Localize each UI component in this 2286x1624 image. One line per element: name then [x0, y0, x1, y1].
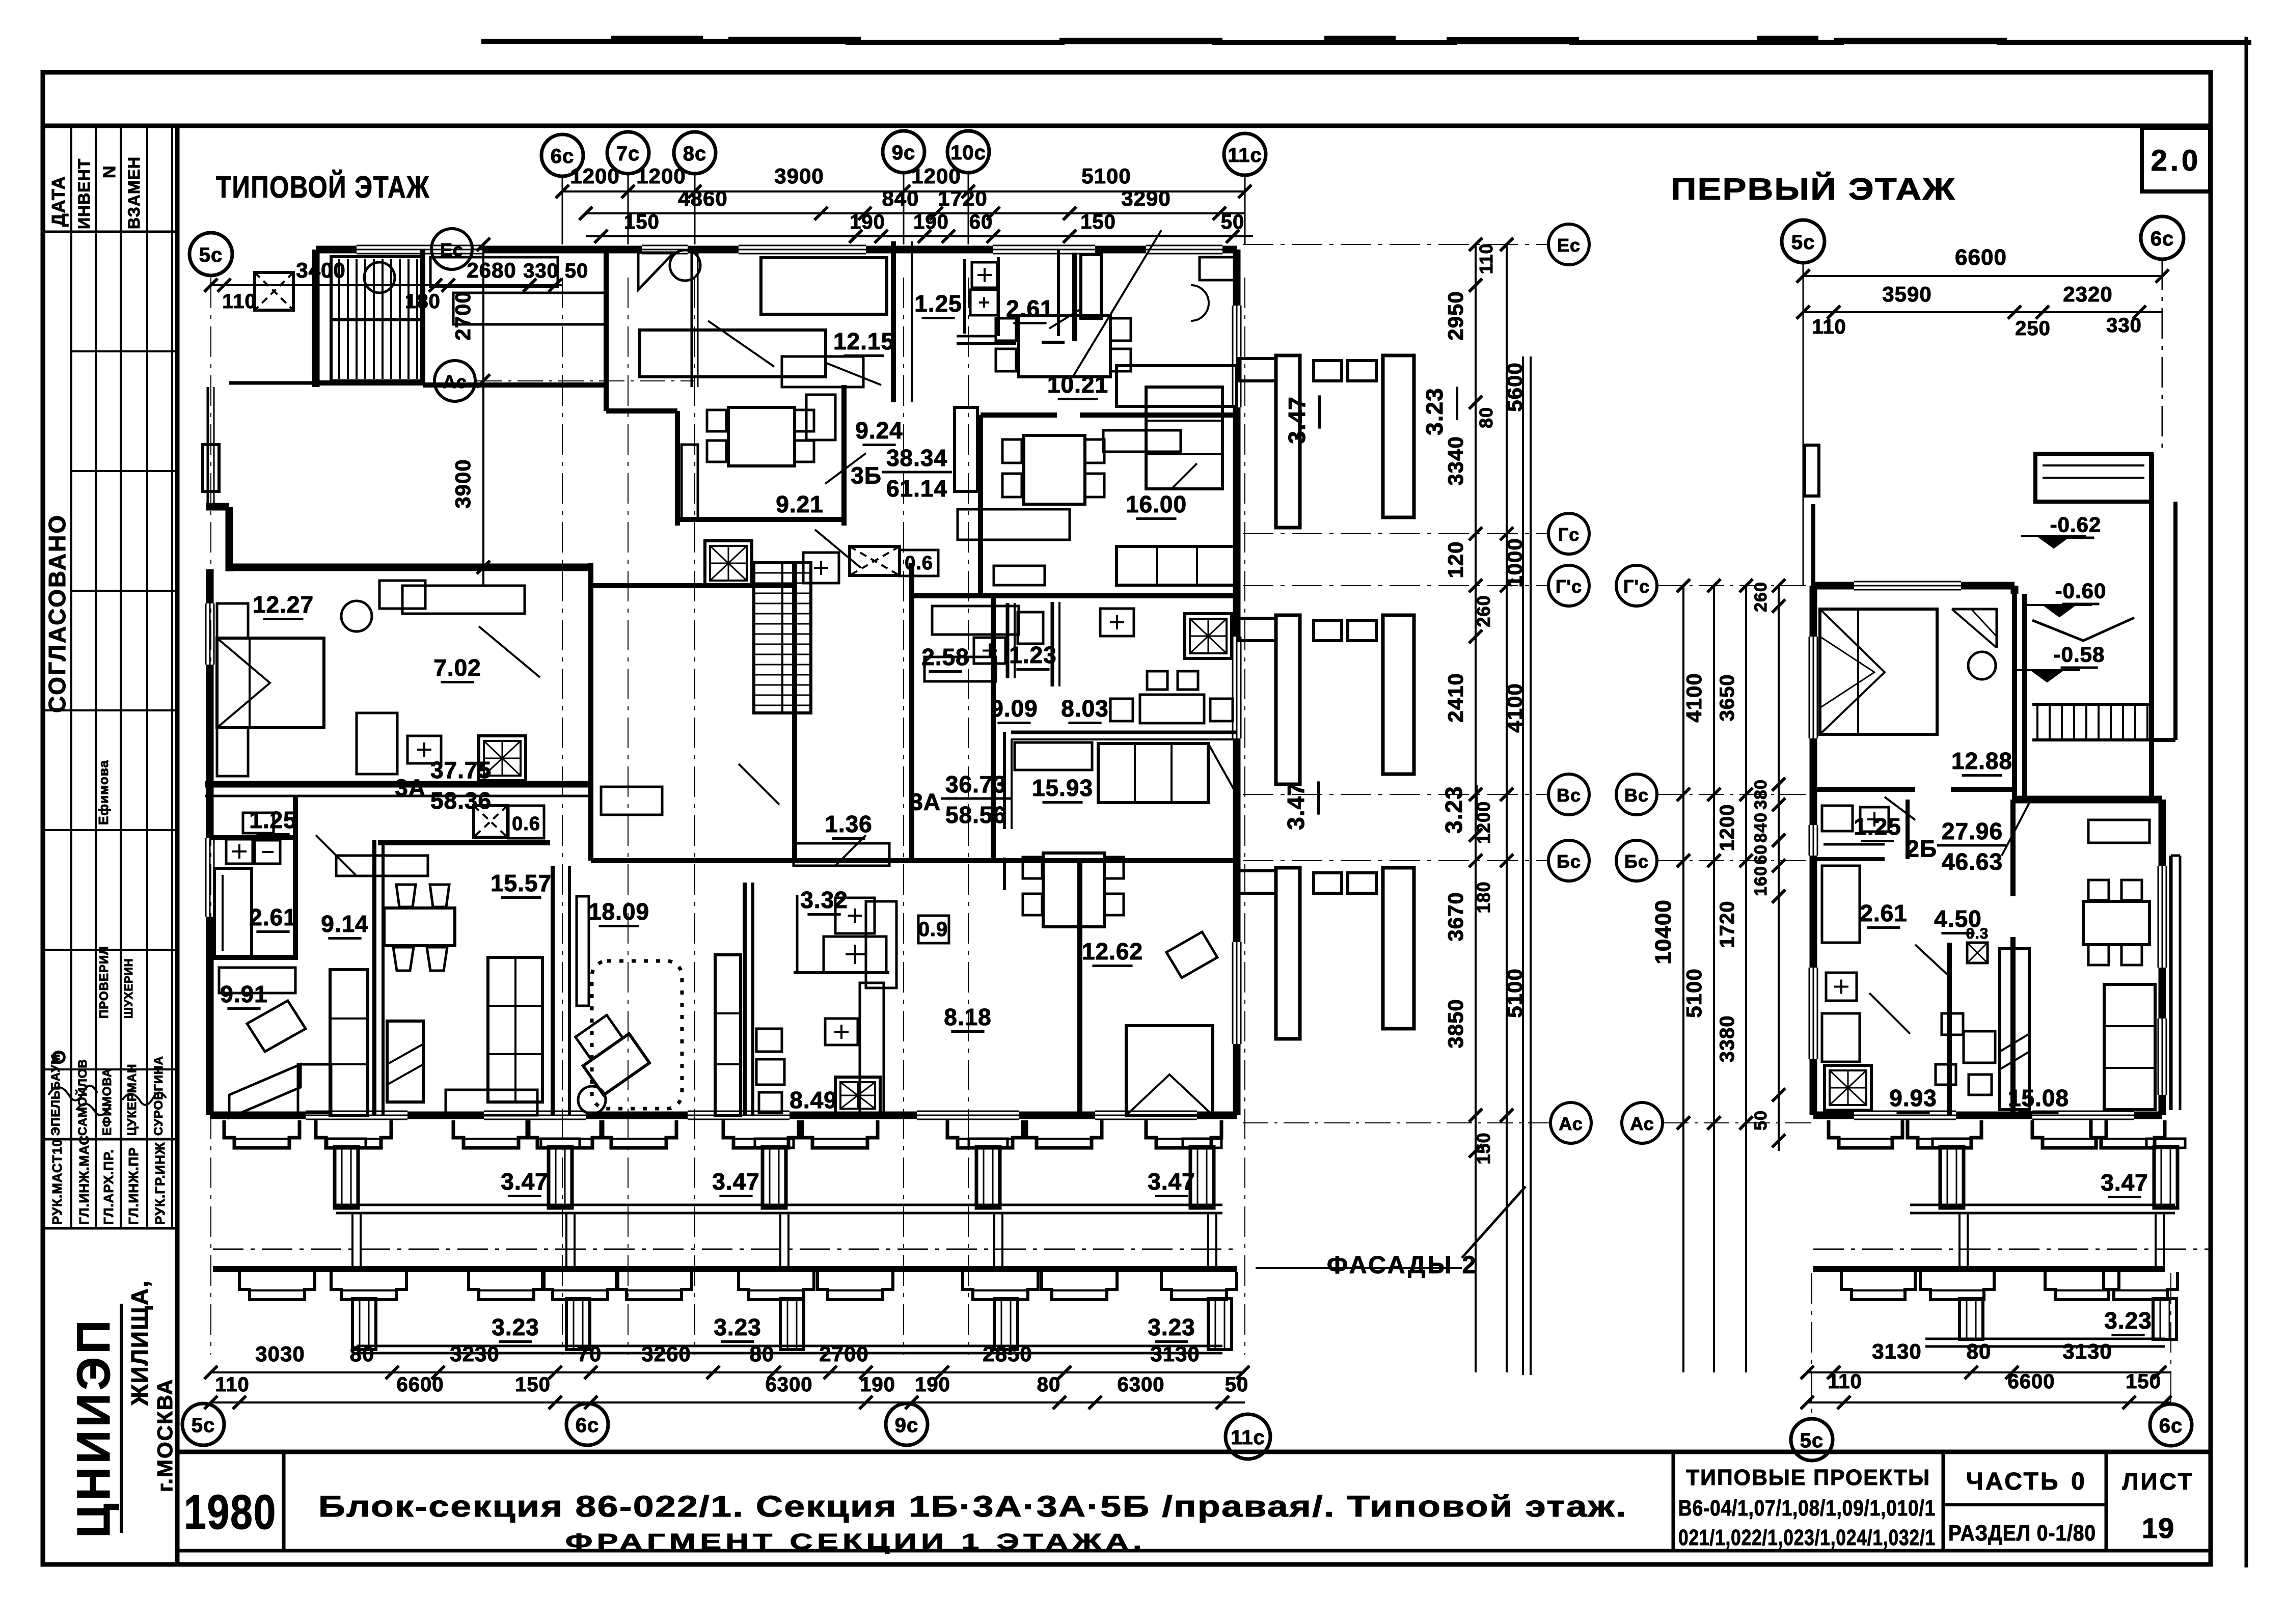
- svg-text:ТИПОВОЙ ЭТАЖ: ТИПОВОЙ ЭТАЖ: [216, 170, 430, 204]
- svg-text:РАЗДЕЛ 0-1/80: РАЗДЕЛ 0-1/80: [1948, 1521, 2096, 1546]
- svg-text:6600: 6600: [2008, 1370, 2055, 1393]
- svg-text:110: 110: [215, 1373, 250, 1396]
- svg-text:3А: 3А: [910, 789, 941, 815]
- svg-text:330: 330: [523, 260, 559, 282]
- svg-text:ЧАСТЬ: ЧАСТЬ: [1966, 1468, 2060, 1495]
- svg-text:3.47: 3.47: [712, 1168, 760, 1195]
- svg-text:Блок-секция 86-022/1. Секция: Блок-секция 86-022/1. Секция 1Б·3А·3А·5Б…: [318, 1490, 1627, 1523]
- svg-text:ГЛ.ИНЖ.ПР: ГЛ.ИНЖ.ПР: [126, 1147, 141, 1225]
- svg-text:4100: 4100: [1682, 673, 1706, 722]
- svg-text:180: 180: [1473, 881, 1494, 913]
- svg-text:Гс: Гс: [1558, 524, 1580, 545]
- svg-text:3А: 3А: [395, 775, 426, 801]
- svg-text:ЛИСТ: ЛИСТ: [2122, 1468, 2194, 1495]
- svg-text:190: 190: [860, 1373, 895, 1396]
- svg-text:330: 330: [2106, 314, 2142, 337]
- svg-text:12.15: 12.15: [833, 328, 894, 354]
- svg-text:260: 260: [1751, 582, 1771, 612]
- svg-text:3130: 3130: [2062, 1339, 2112, 1363]
- svg-text:6с: 6с: [2159, 1415, 2183, 1437]
- svg-text:58.36: 58.36: [430, 787, 492, 814]
- svg-text:0.9: 0.9: [918, 918, 948, 941]
- svg-text:В6-04/1,07/1,08/1,09/1,010/1: В6-04/1,07/1,08/1,09/1,010/1: [1678, 1496, 1936, 1521]
- svg-text:4860: 4860: [678, 186, 727, 210]
- svg-text:58.56: 58.56: [945, 802, 1006, 828]
- svg-text:9с: 9с: [892, 142, 916, 164]
- svg-text:ФАСАДЫ 2: ФАСАДЫ 2: [1327, 1252, 1478, 1279]
- svg-text:ПРОВЕРИЛ: ПРОВЕРИЛ: [97, 946, 111, 1019]
- svg-text:150: 150: [624, 211, 660, 233]
- svg-text:2.58: 2.58: [921, 644, 969, 670]
- svg-text:-0.62: -0.62: [2050, 513, 2102, 537]
- svg-text:160: 160: [1751, 866, 1771, 896]
- svg-text:15.93: 15.93: [1032, 775, 1093, 801]
- svg-text:3.23: 3.23: [714, 1314, 761, 1340]
- svg-text:150: 150: [1473, 1132, 1494, 1164]
- svg-text:3650: 3650: [1716, 674, 1738, 722]
- svg-text:Ас: Ас: [1630, 1113, 1654, 1134]
- svg-text:СОГЛАСОВАНО: СОГЛАСОВАНО: [44, 514, 70, 713]
- svg-text:190: 190: [913, 211, 949, 233]
- svg-text:3290: 3290: [1121, 186, 1171, 210]
- svg-text:840: 840: [1751, 812, 1771, 843]
- svg-text:3.23: 3.23: [1421, 388, 1448, 435]
- svg-text:1200: 1200: [1716, 804, 1738, 851]
- svg-text:10с: 10с: [950, 142, 986, 164]
- svg-text:3670: 3670: [1444, 892, 1467, 941]
- svg-text:Вс: Вс: [1557, 785, 1581, 806]
- svg-text:150: 150: [1080, 211, 1116, 233]
- svg-text:6600: 6600: [1955, 245, 2007, 270]
- svg-text:ВЗАМЕН: ВЗАМЕН: [125, 156, 143, 229]
- svg-text:5с: 5с: [192, 1414, 215, 1437]
- svg-text:3590: 3590: [1882, 282, 1931, 306]
- svg-text:Ас: Ас: [443, 371, 467, 392]
- svg-text:9.24: 9.24: [855, 417, 903, 444]
- svg-text:4.50: 4.50: [1934, 905, 1982, 932]
- svg-text:САМОЙЛОВ: САМОЙЛОВ: [75, 1059, 90, 1136]
- svg-text:3900: 3900: [774, 164, 824, 188]
- svg-text:15.08: 15.08: [2008, 1085, 2069, 1111]
- svg-text:3130: 3130: [1872, 1339, 1921, 1363]
- svg-text:Бс: Бс: [1557, 851, 1581, 872]
- svg-text:3.47: 3.47: [501, 1168, 549, 1195]
- svg-text:ПЕРВЫЙ ЭТАЖ: ПЕРВЫЙ ЭТАЖ: [1671, 172, 1956, 206]
- svg-text:2320: 2320: [2063, 282, 2112, 306]
- svg-text:3850: 3850: [1444, 999, 1467, 1048]
- svg-text:ТИПОВЫЕ ПРОЕКТЫ: ТИПОВЫЕ ПРОЕКТЫ: [1686, 1465, 1930, 1490]
- svg-text:1.25: 1.25: [1854, 813, 1901, 840]
- svg-text:380: 380: [1751, 779, 1771, 810]
- svg-text:50: 50: [565, 260, 589, 282]
- svg-text:9с: 9с: [895, 1414, 919, 1437]
- svg-text:150: 150: [515, 1373, 551, 1396]
- svg-text:80: 80: [1037, 1373, 1061, 1396]
- svg-text:3.47: 3.47: [1283, 782, 1309, 830]
- svg-text:1720: 1720: [938, 186, 987, 210]
- svg-text:19: 19: [2142, 1512, 2174, 1544]
- svg-text:3030: 3030: [255, 1342, 305, 1366]
- svg-text:ЕФИМОВА: ЕФИМОВА: [100, 1068, 114, 1136]
- svg-text:5с: 5с: [1800, 1429, 1824, 1452]
- svg-text:1.36: 1.36: [825, 811, 873, 837]
- svg-text:1200: 1200: [911, 164, 961, 188]
- svg-text:120: 120: [1444, 541, 1467, 578]
- svg-text:3.47: 3.47: [1148, 1168, 1195, 1195]
- svg-text:2950: 2950: [1444, 291, 1467, 340]
- svg-text:7с: 7с: [616, 143, 640, 165]
- svg-text:ЦНИИЭП: ЦНИИЭП: [68, 1317, 120, 1538]
- svg-text:61.14: 61.14: [886, 475, 947, 502]
- svg-text:11с: 11с: [1228, 144, 1262, 167]
- svg-text:16.00: 16.00: [1126, 491, 1187, 517]
- svg-text:9.14: 9.14: [321, 911, 369, 937]
- svg-text:80: 80: [1967, 1339, 1992, 1363]
- svg-text:5100: 5100: [1081, 164, 1131, 188]
- svg-text:РУК.МАСТ10: РУК.МАСТ10: [49, 1139, 65, 1225]
- svg-text:50: 50: [1751, 1110, 1771, 1131]
- svg-text:3380: 3380: [1716, 1015, 1738, 1063]
- svg-text:3.23: 3.23: [492, 1314, 539, 1340]
- svg-text:Бс: Бс: [1624, 851, 1649, 872]
- svg-text:ЖИЛИЩА,: ЖИЛИЩА,: [126, 1280, 153, 1406]
- svg-text:-0.58: -0.58: [2054, 643, 2105, 667]
- svg-text:10.21: 10.21: [1047, 371, 1108, 398]
- svg-text:Ес: Ес: [1557, 235, 1581, 256]
- svg-text:Г'с: Г'с: [1623, 576, 1650, 597]
- svg-text:60: 60: [1751, 844, 1771, 865]
- svg-text:9.93: 9.93: [1889, 1085, 1937, 1111]
- svg-text:6с: 6с: [576, 1414, 600, 1437]
- svg-text:5с: 5с: [199, 244, 223, 266]
- svg-text:3.23: 3.23: [1440, 786, 1467, 834]
- svg-text:3340: 3340: [1444, 436, 1467, 485]
- svg-text:110: 110: [222, 290, 257, 313]
- svg-text:3.23: 3.23: [2104, 1307, 2152, 1334]
- svg-text:260: 260: [1473, 595, 1494, 627]
- svg-text:Вс: Вс: [1624, 785, 1649, 806]
- svg-text:190: 190: [850, 211, 885, 233]
- svg-text:150: 150: [2126, 1370, 2161, 1393]
- svg-text:8с: 8с: [683, 143, 707, 165]
- svg-text:1200: 1200: [636, 164, 686, 188]
- svg-text:ДАТА: ДАТА: [48, 176, 69, 227]
- svg-text:6300: 6300: [1118, 1373, 1165, 1396]
- svg-text:ШУХЕРИН: ШУХЕРИН: [122, 958, 135, 1019]
- svg-text:12.62: 12.62: [1082, 938, 1143, 965]
- svg-text:3.47: 3.47: [2101, 1169, 2148, 1196]
- svg-text:15.57: 15.57: [491, 870, 552, 896]
- svg-text:2.61: 2.61: [249, 904, 297, 930]
- svg-text:9.09: 9.09: [990, 695, 1038, 722]
- svg-text:7.02: 7.02: [433, 654, 481, 681]
- svg-text:Ас: Ас: [1559, 1113, 1583, 1134]
- svg-text:Ефимова: Ефимова: [96, 760, 111, 825]
- svg-text:5100: 5100: [1682, 968, 1706, 1017]
- svg-text:50: 50: [1225, 1373, 1249, 1396]
- svg-text:2.0: 2.0: [2151, 144, 2201, 177]
- svg-text:250: 250: [2015, 317, 2051, 340]
- svg-text:1720: 1720: [1716, 901, 1738, 948]
- svg-text:11с: 11с: [1231, 1426, 1265, 1449]
- svg-text:8.49: 8.49: [790, 1087, 837, 1113]
- svg-text:9.91: 9.91: [220, 981, 268, 1007]
- svg-text:1200: 1200: [570, 164, 619, 188]
- svg-text:1.25: 1.25: [249, 807, 297, 833]
- svg-text:2680: 2680: [467, 258, 516, 282]
- svg-text:0.6: 0.6: [512, 813, 540, 835]
- svg-text:021/1,022/1,023/1,024/1,032/1: 021/1,022/1,023/1,024/1,032/1: [1678, 1525, 1936, 1550]
- svg-text:3Б: 3Б: [851, 462, 882, 489]
- svg-text:Г'с: Г'с: [1556, 576, 1582, 597]
- svg-text:110: 110: [1476, 243, 1496, 274]
- svg-text:8.03: 8.03: [1061, 695, 1109, 722]
- svg-text:-0.60: -0.60: [2055, 579, 2107, 603]
- svg-text:ИНВЕНТ: ИНВЕНТ: [75, 158, 93, 229]
- svg-text:12.27: 12.27: [253, 591, 314, 618]
- svg-text:9.21: 9.21: [776, 491, 824, 517]
- svg-text:N: N: [100, 165, 119, 178]
- svg-text:ЭПЕЛЬБАУМ: ЭПЕЛЬБАУМ: [49, 1054, 63, 1136]
- svg-text:1.23: 1.23: [1009, 642, 1057, 668]
- svg-text:ГЛ.АРХ.ПР.: ГЛ.АРХ.ПР.: [101, 1149, 116, 1225]
- svg-text:18.09: 18.09: [588, 898, 649, 925]
- svg-text:ЦУКЕРМАН: ЦУКЕРМАН: [125, 1064, 139, 1136]
- svg-text:80: 80: [1476, 407, 1496, 428]
- svg-text:2Б: 2Б: [1906, 836, 1937, 862]
- svg-text:37.75: 37.75: [430, 757, 492, 783]
- svg-text:ГЛ.ИНЖ.МАС: ГЛ.ИНЖ.МАС: [76, 1135, 92, 1225]
- svg-text:5с: 5с: [1791, 231, 1815, 254]
- svg-text:60: 60: [969, 211, 993, 233]
- svg-text:ФРАГМЕНТ СЕКЦИИ 1 ЭТАЖА.: ФРАГМЕНТ СЕКЦИИ 1 ЭТАЖА.: [565, 1529, 1146, 1554]
- svg-text:6с: 6с: [2151, 228, 2174, 250]
- svg-text:190: 190: [915, 1373, 950, 1396]
- svg-text:36.73: 36.73: [945, 771, 1006, 797]
- svg-text:0: 0: [2071, 1468, 2085, 1495]
- svg-text:840: 840: [882, 186, 919, 210]
- svg-text:3.32: 3.32: [800, 887, 848, 913]
- svg-text:6600: 6600: [397, 1373, 444, 1396]
- svg-text:6300: 6300: [766, 1373, 813, 1396]
- svg-text:12.88: 12.88: [1951, 748, 2012, 774]
- svg-text:РУК.ГР.ИНЖ: РУК.ГР.ИНЖ: [152, 1142, 168, 1225]
- svg-text:10400: 10400: [1651, 899, 1676, 964]
- svg-text:3900: 3900: [451, 459, 475, 508]
- svg-text:2.61: 2.61: [1006, 295, 1054, 322]
- svg-text:0.6: 0.6: [905, 553, 933, 574]
- svg-text:110: 110: [1812, 316, 1846, 338]
- svg-text:27.96: 27.96: [1942, 818, 2003, 844]
- svg-text:1980: 1980: [184, 1485, 277, 1539]
- svg-text:8.18: 8.18: [944, 1004, 992, 1030]
- svg-text:50: 50: [1221, 211, 1245, 233]
- svg-text:2.61: 2.61: [1860, 900, 1908, 926]
- svg-text:3.23: 3.23: [1148, 1314, 1195, 1340]
- svg-text:110: 110: [1828, 1370, 1862, 1393]
- svg-text:г.МОСКВА: г.МОСКВА: [153, 1379, 177, 1492]
- svg-text:2410: 2410: [1444, 673, 1467, 722]
- svg-text:38.34: 38.34: [886, 445, 947, 471]
- svg-text:3.47: 3.47: [1284, 396, 1310, 444]
- svg-text:1.25: 1.25: [914, 290, 962, 317]
- svg-text:46.63: 46.63: [1942, 848, 2003, 875]
